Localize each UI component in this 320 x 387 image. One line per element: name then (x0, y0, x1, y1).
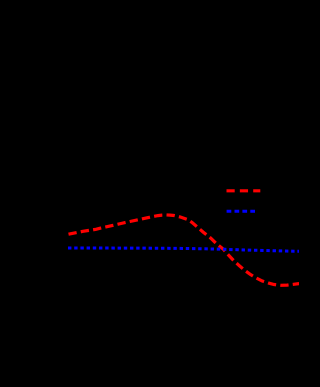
red dashed curve (series 1) (69, 215, 305, 285)
blue dotted horizontal line (series 2) (68, 248, 300, 251)
legend blue dotted sample (227, 210, 255, 213)
legend red dashed sample (227, 189, 261, 192)
